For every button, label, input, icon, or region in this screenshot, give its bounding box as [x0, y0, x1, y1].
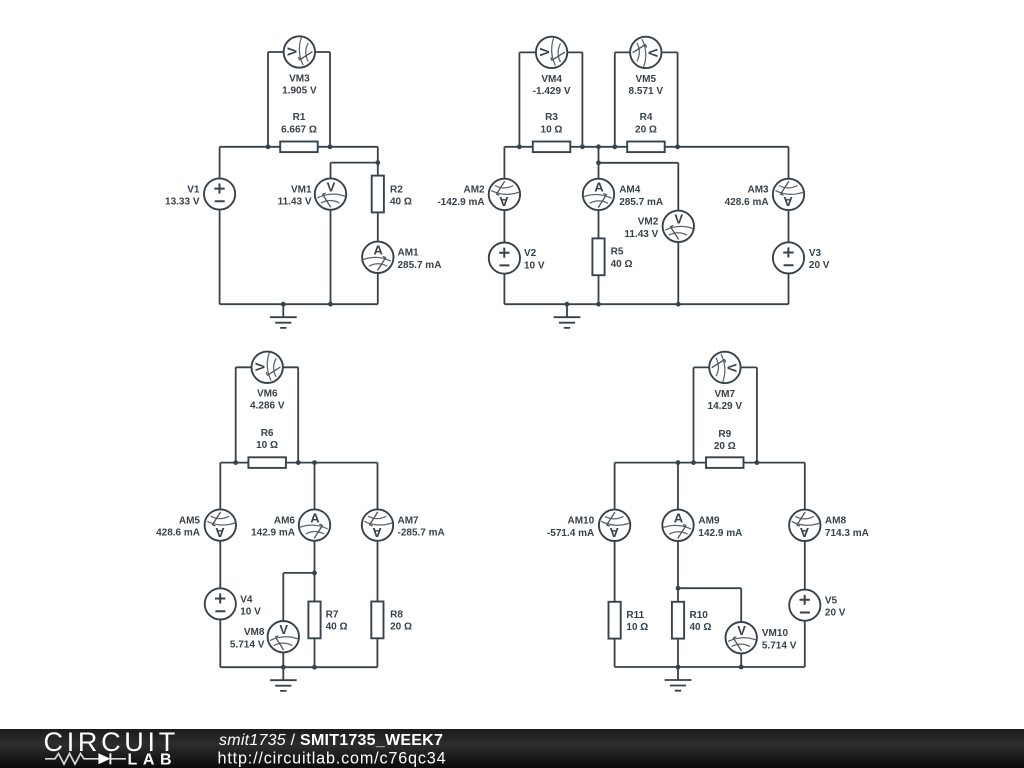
svg-text:R1: R1	[293, 112, 306, 123]
svg-text:10 V: 10 V	[240, 607, 261, 618]
svg-text:40 Ω: 40 Ω	[611, 259, 633, 270]
svg-text:714.3 mA: 714.3 mA	[825, 528, 869, 539]
svg-text:AM10: AM10	[568, 516, 595, 527]
svg-text:VM8: VM8	[244, 627, 265, 638]
svg-text:AM7: AM7	[398, 515, 420, 526]
svg-text:11.43 V: 11.43 V	[624, 229, 658, 240]
svg-text:1.905 V: 1.905 V	[282, 86, 317, 97]
svg-text:20 Ω: 20 Ω	[635, 125, 657, 136]
svg-text:V2: V2	[524, 248, 537, 259]
svg-text:20 Ω: 20 Ω	[714, 441, 736, 452]
svg-text:285.7 mA: 285.7 mA	[398, 260, 442, 271]
svg-text:V1: V1	[187, 184, 200, 195]
svg-text:AM6: AM6	[274, 515, 296, 526]
svg-text:AM5: AM5	[179, 515, 201, 526]
svg-text:20 V: 20 V	[825, 608, 846, 619]
svg-text:R9: R9	[718, 429, 731, 440]
svg-text:5.714 V: 5.714 V	[230, 639, 265, 650]
svg-text:V4: V4	[240, 594, 253, 605]
svg-text:R7: R7	[326, 610, 339, 621]
svg-text:R5: R5	[611, 247, 624, 258]
svg-text:VM10: VM10	[762, 628, 789, 639]
svg-text:AM4: AM4	[619, 185, 641, 196]
svg-text:10 Ω: 10 Ω	[256, 440, 278, 451]
svg-text:14.29 V: 14.29 V	[708, 401, 743, 412]
svg-text:-1.429 V: -1.429 V	[533, 86, 571, 97]
svg-text:VM4: VM4	[541, 74, 562, 85]
svg-text:5.714 V: 5.714 V	[762, 640, 797, 651]
svg-text:-571.4 mA: -571.4 mA	[547, 528, 594, 539]
svg-text:-142.9 mA: -142.9 mA	[437, 197, 484, 208]
svg-text:R11: R11	[626, 610, 644, 621]
svg-text:428.6 mA: 428.6 mA	[725, 197, 769, 208]
svg-text:R4: R4	[640, 112, 653, 123]
svg-text:AM9: AM9	[698, 516, 720, 527]
svg-text:10 V: 10 V	[524, 260, 545, 271]
svg-text:http://circuitlab.com/c76qc34: http://circuitlab.com/c76qc34	[218, 750, 447, 768]
svg-text:VM7: VM7	[715, 389, 736, 400]
svg-text:4.286 V: 4.286 V	[250, 401, 285, 412]
svg-text:8.571 V: 8.571 V	[629, 86, 664, 97]
svg-text:13.33 V: 13.33 V	[165, 197, 200, 208]
svg-text:-285.7 mA: -285.7 mA	[398, 528, 445, 539]
svg-text:R2: R2	[390, 184, 403, 195]
svg-text:40 Ω: 40 Ω	[326, 622, 348, 633]
svg-text:VM6: VM6	[257, 389, 278, 400]
svg-text:142.9 mA: 142.9 mA	[698, 528, 742, 539]
svg-text:142.9 mA: 142.9 mA	[251, 528, 295, 539]
svg-text:V5: V5	[825, 595, 838, 606]
svg-text:40 Ω: 40 Ω	[690, 622, 712, 633]
svg-text:R8: R8	[390, 610, 403, 621]
svg-text:V3: V3	[809, 248, 822, 259]
svg-text:VM2: VM2	[638, 217, 659, 228]
svg-text:428.6 mA: 428.6 mA	[156, 528, 200, 539]
svg-text:10 Ω: 10 Ω	[626, 622, 648, 633]
svg-text:R6: R6	[261, 428, 274, 439]
svg-text:VM5: VM5	[636, 74, 657, 85]
svg-text:20 V: 20 V	[809, 260, 830, 271]
svg-text:smit1735 / SMIT1735_WEEK7: smit1735 / SMIT1735_WEEK7	[219, 732, 443, 749]
svg-text:R10: R10	[690, 610, 709, 621]
svg-text:AM8: AM8	[825, 516, 847, 527]
svg-text:AM3: AM3	[747, 185, 769, 196]
svg-text:LAB: LAB	[128, 752, 178, 768]
svg-text:VM1: VM1	[291, 184, 312, 195]
svg-text:AM1: AM1	[398, 248, 420, 259]
svg-text:VM3: VM3	[289, 74, 310, 85]
svg-text:6.667 Ω: 6.667 Ω	[281, 125, 317, 136]
svg-text:40 Ω: 40 Ω	[390, 197, 412, 208]
svg-text:10 Ω: 10 Ω	[541, 125, 563, 136]
svg-text:R3: R3	[545, 112, 558, 123]
svg-text:AM2: AM2	[463, 185, 485, 196]
svg-text:20 Ω: 20 Ω	[390, 622, 412, 633]
svg-text:11.43 V: 11.43 V	[278, 197, 312, 208]
svg-text:285.7 mA: 285.7 mA	[619, 197, 663, 208]
